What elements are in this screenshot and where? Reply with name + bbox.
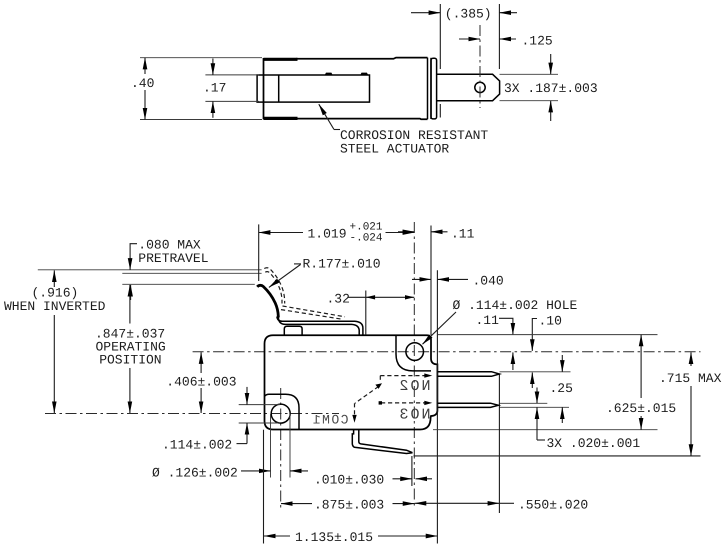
svg-text:.010±.030: .010±.030 [314,472,384,487]
main horizontal centerline [193,351,701,353]
dimension .11 top extension line [430,226,432,336]
COM blade tip extension line [411,456,413,486]
dimension 3X .187 arrows [550,54,552,74]
dimension .040 extension line [436,270,438,543]
bottom-most reference line [414,455,701,457]
dimension .847 arrow down [129,368,131,413]
dimension .11 right leader and arrows [499,318,513,320]
body bottom edge extension right [433,429,658,431]
lever dashed free position curl outer [264,268,284,304]
dimension (.385) arrows [411,12,440,14]
dimension .40 arrows [144,58,146,74]
dimension .32 line and arrows [348,296,414,298]
dimension (.916) arrow down [53,315,55,413]
svg-text:POSITION: POSITION [99,353,161,368]
svg-text:STEEL ACTUATOR: STEEL ACTUATOR [340,142,449,157]
dimension dia .126 arrows [241,470,271,472]
svg-text:(.385): (.385) [445,7,492,22]
dimension .550 line and arrows [415,502,430,504]
hidden circuit line to NO2 [380,375,424,377]
plunger bump on top edge [284,326,302,335]
blade hole [475,82,485,92]
svg-text:PRETRAVEL: PRETRAVEL [138,251,208,266]
dimension 1.019 arrows [259,232,303,234]
dimension .32 extension line [365,291,367,335]
upper mounting hole [406,343,424,361]
dimension .10 leader and arrows [532,319,537,321]
actuator body bottom thick band [264,117,298,120]
svg-text:.875±.003: .875±.003 [314,498,384,513]
lower hole horizontal centerline [45,413,339,415]
dimension 3X .020 arrows [536,388,538,404]
hole callout leader [423,312,457,344]
svg-text:1.019: 1.019 [308,227,347,242]
lever dashed free leaf bottom [281,310,342,320]
dimension (.916) arrow up [53,270,55,287]
terminal blade 1 (NO2) [437,372,499,377]
actuator cap inner ring line [427,58,429,120]
upper mounting hole boss [396,335,431,371]
svg-text:.550±.020: .550±.020 [518,497,588,512]
plunger inner box [257,75,369,102]
lever solid leaf inner line [277,317,363,336]
svg-text:Ø .126±.002: Ø .126±.002 [152,466,238,481]
svg-text:NO3: NO3 [397,407,430,424]
dimension .080 leader [130,243,137,245]
dimension (.385) extension lines [439,4,441,69]
blade2 top edge extension [499,402,547,404]
actuator body bottom edge [296,118,428,121]
terminal blade (top view) [437,74,500,100]
svg-text:Ø .114±.002 HOLE: Ø .114±.002 HOLE [453,298,578,313]
dimension .114 leader elbow [237,443,248,445]
upper hole vertical centerline [413,222,415,508]
lower mounting hole [271,404,290,423]
plunger top nub 1 [325,73,333,75]
svg-text:.32: .32 [327,291,350,306]
svg-text:.114±.002: .114±.002 [162,438,232,453]
actuator body left edge [263,58,265,119]
lever dashed free leaf top [283,306,346,317]
svg-text:-.024: -.024 [350,233,383,245]
hidden circuit common arm [355,387,379,404]
svg-text:WHEN INVERTED: WHEN INVERTED [4,299,106,314]
dimension .17 arrows [212,59,214,75]
lever operating line [122,283,255,285]
lower hole vertical centerline [280,388,282,510]
svg-text:.125: .125 [522,34,553,49]
dimension .40 extension lines [140,57,262,59]
dimension 3X .187 extension lines [500,73,559,75]
dimension .406 arrow up [200,352,202,373]
plunger top nub 2 [360,73,368,75]
COM terminal [352,430,412,454]
terminal blade 2 (NO3) [437,403,498,407]
dimension .625 arrows [640,335,642,348]
blade2 bottom edge extension [499,406,569,408]
svg-text:.406±.003: .406±.003 [166,375,236,390]
lever solid curl [257,285,278,317]
dimension .114 arrows [246,387,248,405]
svg-text:.625±.015: .625±.015 [606,401,676,416]
svg-text:3X .187±.003: 3X .187±.003 [504,81,598,96]
dimension 1.019 extension line [258,224,260,281]
dimension .875 arrows [281,503,312,505]
body top edge extension right [438,334,658,336]
dimension .010 arrows [393,478,412,480]
lever pretravel line [122,272,261,274]
1.135 left extension line [263,430,265,544]
actuator cap second ring line [430,58,432,119]
svg-text:.715 MAX: .715 MAX [659,371,722,386]
svg-text:.11: .11 [451,227,475,242]
lever solid leaf outer line [278,317,359,336]
dimension .040 arrows [412,278,431,280]
corrosion resistant leader [319,104,334,129]
svg-text:COM1: COM1 [311,413,348,428]
dimension .17 extension lines [205,74,259,76]
actuator body top edge [296,58,428,59]
dimension .11 top arrows [398,231,414,233]
svg-text:.40: .40 [131,76,154,91]
lever dashed free position curl inner [265,272,282,304]
blade hole centerline [479,25,481,108]
plunger divider line [278,75,280,102]
dimension dia .126 extension lines [270,414,272,478]
dimension .114 extension lines [239,404,280,406]
svg-text:.25: .25 [550,381,573,396]
svg-text:3X .020±.001: 3X .020±.001 [547,436,641,451]
lower mounting hole boss [265,394,300,429]
actuator cap outer strip [431,58,437,119]
blade1 top edge extension [500,371,571,373]
svg-text:R.177±.010: R.177±.010 [303,257,381,272]
blade tips extension line [498,374,500,513]
dimension .406 arrow down [200,388,202,413]
svg-text:.10: .10 [539,314,562,329]
actuator body top thick band [264,58,298,61]
dimension 1.135 arrows [264,535,290,537]
R.177 leader [294,263,301,265]
svg-text:.17: .17 [203,81,226,96]
dimension .125 arrows [459,38,480,40]
dimension .715 arrows [690,352,692,366]
svg-text:1.135±.015: 1.135±.015 [295,530,373,545]
dimension .25 arrows [561,355,563,372]
hidden circuit line to NO3 [381,402,425,404]
dimension .847 arrow up [129,285,131,324]
svg-text:NO2: NO2 [397,378,430,395]
svg-text:.040: .040 [473,274,504,289]
dimension 3X .020 leader elbow [537,439,545,441]
lever free-position line [38,269,262,271]
switch body outline [265,335,438,429]
hidden circuit line to COM [354,403,356,415]
svg-text:.11: .11 [476,313,500,328]
dimension .080 up arrow [130,285,132,300]
